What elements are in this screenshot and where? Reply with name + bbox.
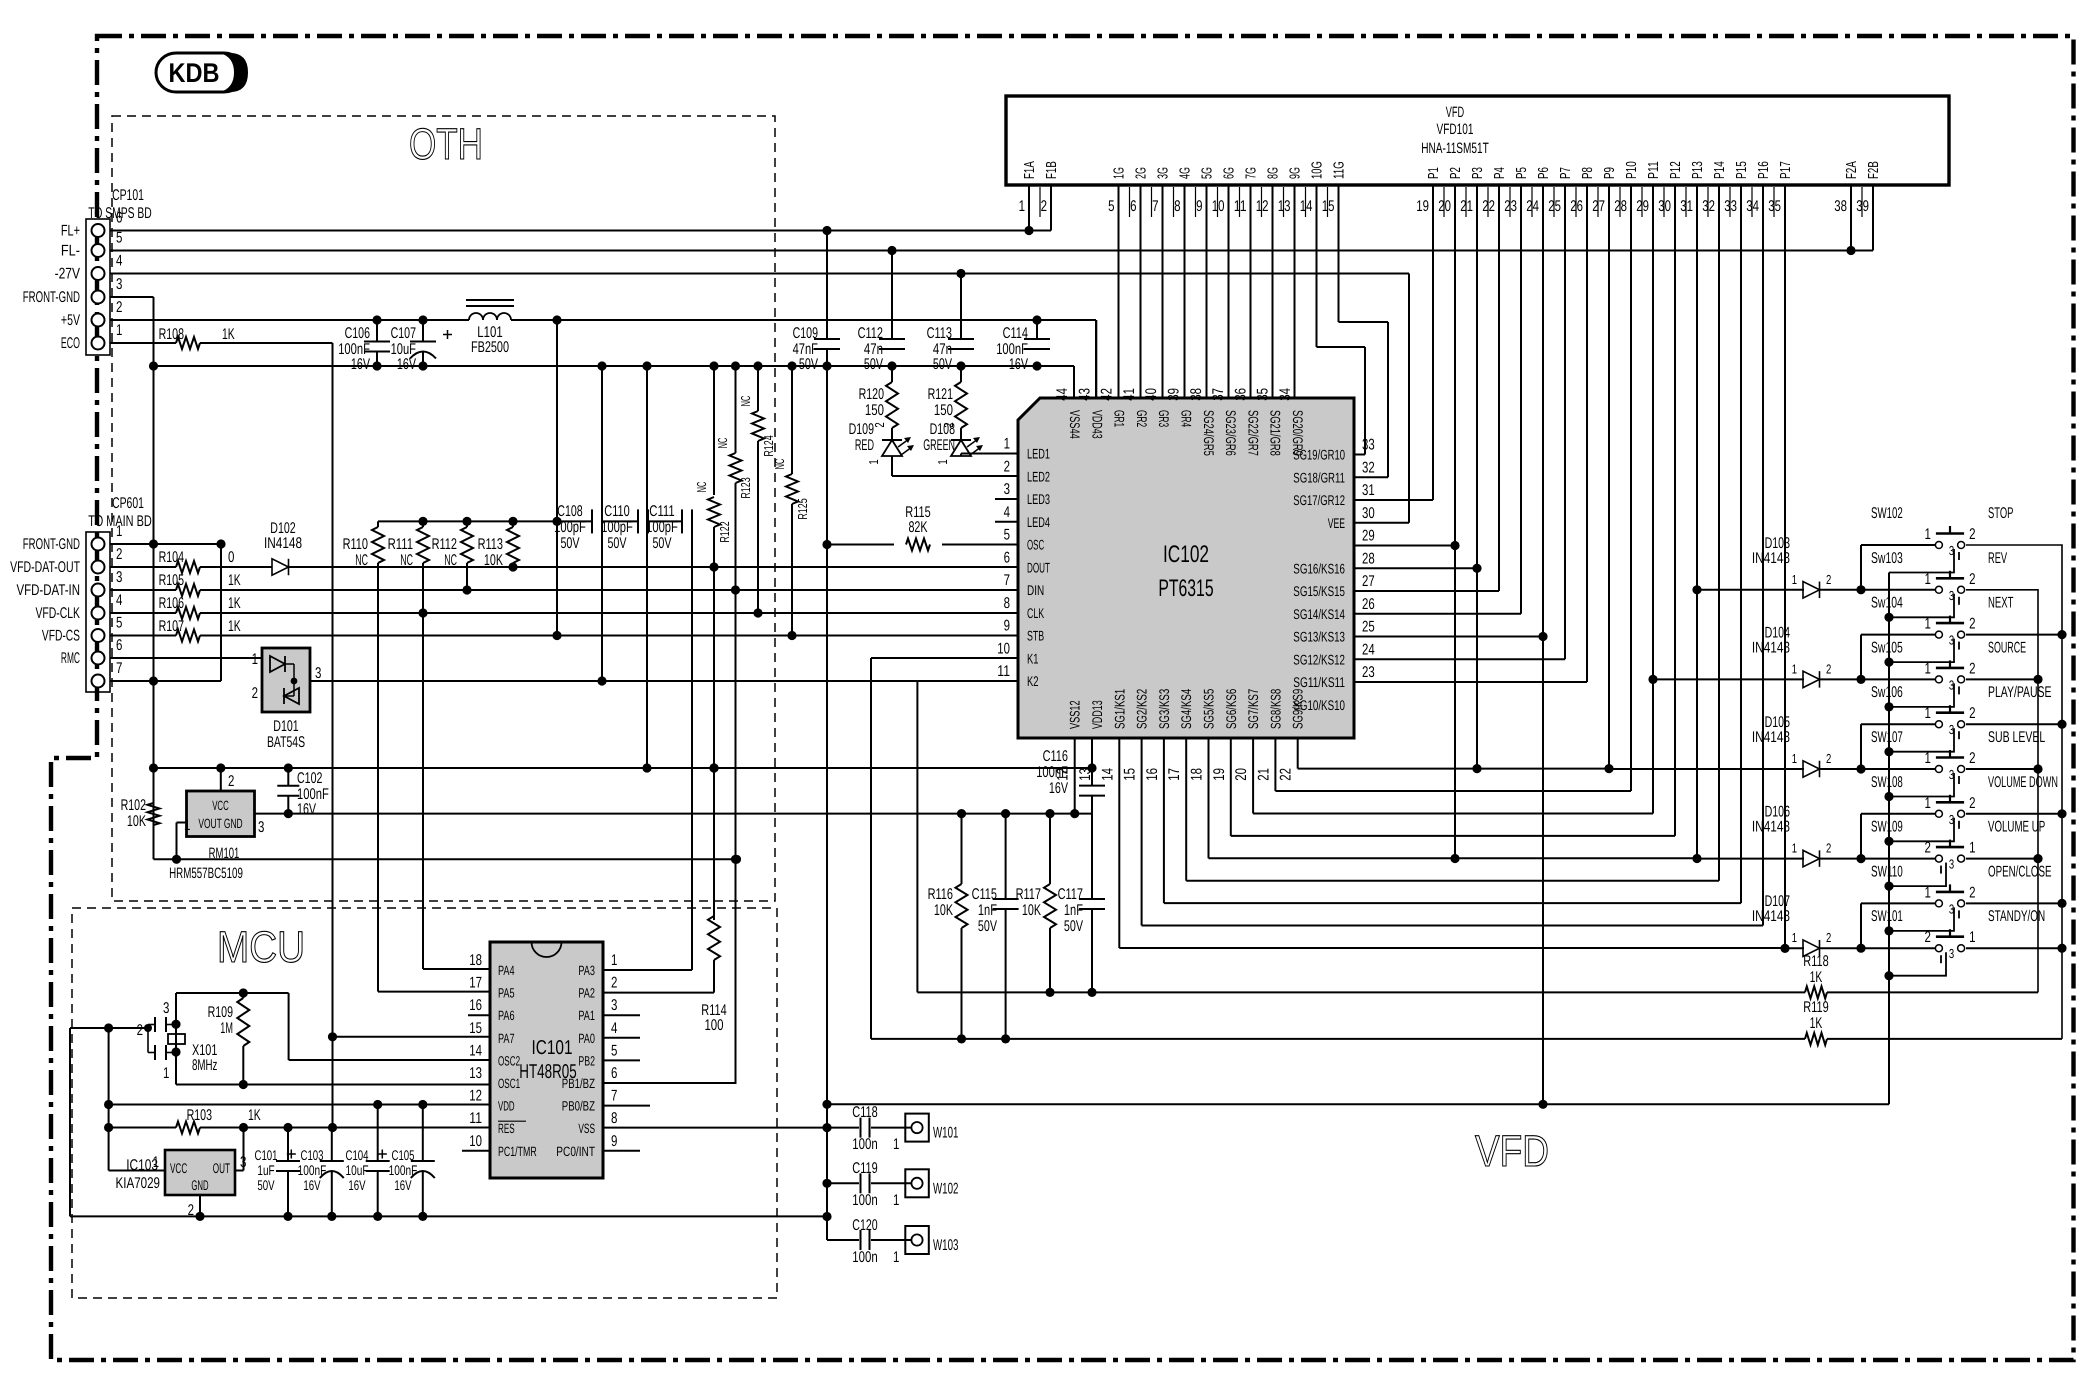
svg-text:1nF: 1nF	[978, 902, 997, 919]
resistor R123 NC	[715, 366, 753, 1083]
MCU region label	[217, 923, 305, 972]
svg-text:RED: RED	[855, 437, 874, 454]
switch Sw103 REV	[1871, 550, 2007, 618]
MCU region dashed box	[72, 908, 777, 1298]
capacitor C106 100nF 16V	[338, 320, 390, 373]
svg-text:LED4: LED4	[1027, 514, 1050, 530]
svg-text:100nF: 100nF	[1036, 764, 1068, 781]
svg-text:C119: C119	[852, 1160, 877, 1177]
svg-text:25: 25	[1548, 198, 1561, 215]
diode D106 IN4148	[1697, 804, 1935, 867]
svg-text:NC: NC	[738, 396, 753, 407]
svg-text:1: 1	[893, 1192, 899, 1209]
svg-text:1: 1	[1925, 660, 1931, 677]
svg-text:VFD: VFD	[1475, 1127, 1549, 1176]
svg-text:CP601: CP601	[112, 495, 144, 512]
svg-text:41: 41	[1121, 388, 1138, 401]
svg-text:KIA7029: KIA7029	[116, 1175, 161, 1192]
svg-text:SW109: SW109	[1871, 819, 1903, 836]
crystal X101 8MHz	[137, 1000, 218, 1082]
svg-text:28: 28	[1362, 550, 1375, 567]
svg-text:7: 7	[1004, 572, 1010, 589]
svg-text:100n: 100n	[852, 1136, 877, 1153]
svg-text:6: 6	[1130, 198, 1136, 215]
svg-text:50V: 50V	[257, 1177, 275, 1193]
svg-text:IC101: IC101	[532, 1037, 573, 1059]
svg-text:VSS12: VSS12	[1067, 700, 1083, 729]
svg-text:P12: P12	[1668, 161, 1684, 179]
svg-text:39: 39	[1856, 198, 1869, 215]
wire 11G jog to pin32	[1339, 185, 1389, 477]
svg-text:SG20/GR9: SG20/GR9	[1290, 410, 1306, 456]
svg-text:W102: W102	[933, 1180, 958, 1197]
svg-text:STOP: STOP	[1988, 505, 2013, 522]
wire crystal bottom loop	[176, 1052, 490, 1089]
wire switch column B (to R119)	[1966, 545, 2067, 1039]
svg-text:2G: 2G	[1134, 167, 1150, 179]
svg-text:1uF: 1uF	[257, 1162, 274, 1178]
svg-text:1: 1	[1925, 884, 1931, 901]
svg-text:IN4148: IN4148	[1752, 639, 1790, 656]
resistor R122 NC / R114 column	[694, 366, 732, 920]
svg-text:R109: R109	[208, 1004, 233, 1021]
svg-text:2: 2	[1969, 571, 1975, 588]
svg-text:W103: W103	[933, 1237, 958, 1254]
svg-text:SW107: SW107	[1871, 729, 1903, 746]
svg-text:SG22/GR7: SG22/GR7	[1245, 410, 1261, 456]
svg-text:C106: C106	[345, 325, 370, 342]
resistor R109 1M	[208, 993, 250, 1085]
regulator IC103 KIA7029	[116, 1150, 247, 1219]
svg-text:K2: K2	[1027, 673, 1039, 689]
svg-text:GR3: GR3	[1156, 410, 1172, 427]
svg-text:OSC2: OSC2	[498, 1053, 520, 1068]
svg-text:P13: P13	[1690, 161, 1706, 179]
svg-text:OSC1: OSC1	[498, 1076, 520, 1091]
svg-text:IN4148: IN4148	[1752, 550, 1790, 567]
svg-text:13: 13	[1278, 198, 1291, 215]
svg-text:7G: 7G	[1244, 167, 1260, 179]
svg-text:0: 0	[228, 549, 235, 566]
resistor R124 NC	[738, 366, 776, 618]
svg-text:SG17/GR12: SG17/GR12	[1293, 492, 1345, 508]
svg-text:1: 1	[1019, 198, 1025, 215]
svg-text:2: 2	[1925, 929, 1931, 946]
wires P9-P17 to SG9/KS9..SG1/KS1 bottom web	[1119, 185, 1789, 953]
wire IC103 GND stub	[195, 1195, 204, 1221]
svg-text:C117: C117	[1058, 886, 1083, 903]
svg-text:PA7: PA7	[498, 1031, 515, 1046]
svg-text:SUB LEVEL: SUB LEVEL	[1988, 729, 2045, 746]
svg-text:16V: 16V	[351, 356, 371, 373]
capacitor C111 100pF 50V	[646, 503, 692, 552]
svg-text:NC: NC	[694, 482, 709, 493]
svg-text:R122: R122	[717, 521, 732, 542]
svg-text:SW101: SW101	[1871, 908, 1903, 925]
svg-text:P5: P5	[1514, 167, 1530, 179]
svg-text:37: 37	[1210, 388, 1227, 401]
inductor L101 FB2500	[466, 300, 514, 356]
wire RM101 pin1	[172, 823, 187, 864]
svg-text:2: 2	[1969, 616, 1975, 633]
svg-text:100nF: 100nF	[389, 1162, 418, 1178]
svg-text:1: 1	[163, 1065, 169, 1082]
svg-text:R108: R108	[159, 326, 184, 343]
svg-text:16V: 16V	[303, 1177, 321, 1193]
svg-text:17: 17	[1166, 768, 1183, 781]
svg-text:2: 2	[252, 685, 258, 702]
svg-text:1: 1	[1792, 841, 1797, 856]
svg-text:5: 5	[116, 615, 122, 632]
svg-text:P8: P8	[1580, 167, 1596, 179]
wire IC101 pin10 stub	[462, 1150, 490, 1152]
wire P1 to SG17/GR12	[1354, 185, 1433, 500]
wire RM101 pin3 VOUT rail	[255, 809, 1092, 818]
svg-text:D109: D109	[849, 421, 874, 438]
VFD region label	[1475, 1127, 1549, 1176]
svg-text:PLAY/PAUSE: PLAY/PAUSE	[1988, 684, 2052, 701]
svg-text:SOURCE: SOURCE	[1988, 639, 2026, 656]
svg-text:R102: R102	[121, 797, 146, 814]
capacitor C118 100n + W101	[827, 1104, 958, 1153]
svg-text:PC1/TMR: PC1/TMR	[498, 1144, 537, 1159]
svg-text:R105: R105	[159, 572, 184, 589]
svg-text:16: 16	[469, 997, 482, 1014]
svg-text:GR2: GR2	[1134, 410, 1150, 427]
svg-text:NEXT: NEXT	[1988, 595, 2014, 612]
svg-text:Sw103: Sw103	[1871, 550, 1903, 567]
svg-text:Sw105: Sw105	[1871, 639, 1903, 656]
svg-text:23: 23	[1362, 664, 1375, 681]
svg-text:150: 150	[865, 402, 884, 419]
svg-text:VDD43: VDD43	[1089, 410, 1105, 439]
svg-text:C108: C108	[557, 503, 582, 520]
svg-text:9: 9	[1004, 618, 1010, 635]
svg-text:27: 27	[1592, 198, 1605, 215]
switch Sw104 NEXT	[1871, 595, 2014, 663]
svg-text:VFD: VFD	[1446, 104, 1465, 121]
resistor R108 1K	[110, 326, 235, 349]
resistor R115 82K on OSC line	[822, 504, 1018, 551]
svg-text:7: 7	[116, 660, 122, 677]
svg-text:TO MAIN BD: TO MAIN BD	[88, 513, 152, 530]
resistor R104 0 + wire VFD-DAT-OUT	[110, 549, 272, 573]
svg-text:19: 19	[1211, 768, 1228, 781]
svg-text:PA6: PA6	[498, 1008, 515, 1023]
svg-text:26: 26	[1362, 596, 1375, 613]
svg-text:100: 100	[704, 1017, 723, 1034]
svg-text:GR1: GR1	[1112, 410, 1128, 427]
svg-text:1: 1	[935, 459, 950, 464]
svg-text:100n: 100n	[852, 1249, 877, 1266]
svg-text:3: 3	[1949, 857, 1954, 872]
svg-text:4G: 4G	[1178, 167, 1194, 179]
svg-text:VDD13: VDD13	[1089, 700, 1105, 729]
svg-text:C107: C107	[391, 325, 416, 342]
resistor R116 10K	[928, 814, 968, 1044]
svg-text:VCC: VCC	[170, 1160, 187, 1176]
svg-text:11: 11	[469, 1110, 482, 1127]
svg-text:IN4148: IN4148	[1752, 819, 1790, 836]
svg-text:50V: 50V	[978, 918, 998, 935]
resistor R103 1K + RES row	[109, 1107, 490, 1134]
svg-text:31: 31	[1362, 482, 1375, 499]
svg-text:3: 3	[315, 665, 321, 682]
svg-text:100pF: 100pF	[646, 519, 678, 536]
diode D107 IN4148	[1752, 893, 1935, 956]
wire VSS row to C118	[603, 1127, 827, 1129]
wire 10G jog to pin33	[1317, 185, 1366, 455]
resistor R118 1K	[1803, 953, 2038, 998]
svg-text:30: 30	[1658, 198, 1671, 215]
svg-text:10: 10	[997, 640, 1010, 657]
capacitor C110 100pF 50V	[601, 503, 648, 552]
svg-text:STB: STB	[1027, 628, 1044, 644]
svg-text:VCC: VCC	[212, 798, 229, 813]
svg-text:PB0/BZ: PB0/BZ	[562, 1099, 595, 1114]
capacitor C104 10uF 16V	[346, 1105, 390, 1217]
svg-text:R125: R125	[795, 498, 810, 519]
svg-text:14: 14	[1300, 198, 1313, 215]
svg-text:PA2: PA2	[578, 986, 595, 1001]
svg-text:SW108: SW108	[1871, 774, 1903, 791]
svg-text:C101: C101	[255, 1147, 278, 1163]
svg-text:PA4: PA4	[498, 963, 515, 978]
svg-text:2: 2	[1969, 660, 1975, 677]
svg-text:STANDY/ON: STANDY/ON	[1988, 908, 2045, 925]
svg-text:16V: 16V	[1049, 780, 1069, 797]
svg-text:SG13/KS13: SG13/KS13	[1293, 629, 1345, 645]
wire PA6 stub	[468, 1014, 490, 1016]
svg-text:1K: 1K	[248, 1107, 261, 1124]
svg-text:1: 1	[1969, 840, 1975, 857]
switch SW107 SUB LEVEL	[1871, 729, 2045, 797]
svg-text:R103: R103	[187, 1107, 212, 1124]
svg-text:C103: C103	[301, 1147, 324, 1163]
svg-text:44: 44	[1054, 388, 1071, 401]
svg-text:P14: P14	[1712, 161, 1728, 179]
capacitor C103 100nF 16V	[287, 1128, 344, 1217]
svg-text:3: 3	[258, 819, 264, 836]
svg-text:C116: C116	[1043, 748, 1068, 765]
svg-text:IN4148: IN4148	[1752, 908, 1790, 925]
wire RM101 pin2 stub	[220, 768, 222, 791]
svg-text:SG24/GR5: SG24/GR5	[1201, 410, 1217, 456]
svg-text:P3: P3	[1470, 167, 1486, 179]
svg-text:REV: REV	[1988, 550, 2007, 567]
svg-text:R124: R124	[761, 435, 776, 456]
svg-text:R111: R111	[388, 536, 413, 553]
resistor R112 NC	[432, 521, 473, 594]
svg-text:32: 32	[1362, 459, 1375, 476]
diode D103 IN4148	[1697, 535, 1935, 598]
svg-text:BAT54S: BAT54S	[267, 734, 305, 751]
wire IC101 pin9 stub	[603, 1150, 640, 1152]
wire switch column A (to R118)	[1966, 590, 2043, 993]
diode D104 IN4148	[1653, 624, 1935, 687]
svg-text:42: 42	[1099, 388, 1116, 401]
svg-text:1nF: 1nF	[1064, 902, 1083, 919]
svg-text:7: 7	[1152, 198, 1158, 215]
svg-text:R112: R112	[432, 536, 457, 553]
svg-text:2: 2	[1826, 751, 1831, 766]
svg-text:LED1: LED1	[1027, 446, 1050, 462]
svg-text:PB1/BZ: PB1/BZ	[562, 1076, 595, 1091]
capacitor C114 100nF 16V	[996, 320, 1050, 373]
resistor R107 1K + wire VFD-CS	[110, 618, 1018, 642]
wire -27V net to VEE	[110, 269, 1409, 523]
svg-text:16V: 16V	[397, 356, 417, 373]
svg-text:MCU: MCU	[217, 923, 305, 972]
wire ECO net	[200, 343, 337, 1132]
switch SW102 STOP	[1871, 505, 2013, 573]
capacitor C102 100nF 16V	[277, 768, 329, 818]
svg-text:1G: 1G	[1112, 167, 1128, 179]
svg-text:SW102: SW102	[1871, 505, 1903, 522]
wires even switch pin1 drops	[1856, 545, 1935, 953]
svg-text:D101: D101	[273, 718, 298, 735]
svg-text:50V: 50V	[799, 356, 819, 373]
svg-text:IN4148: IN4148	[1752, 729, 1790, 746]
resistor R119 1K	[1803, 999, 2062, 1045]
svg-text:2: 2	[1826, 661, 1831, 676]
svg-text:SG9/KS9: SG9/KS9	[1290, 689, 1306, 729]
wires P2-P8 to SG16..SG10 rows	[1354, 185, 1587, 1109]
svg-text:13: 13	[469, 1065, 482, 1082]
svg-text:2: 2	[228, 773, 234, 790]
svg-text:DIN: DIN	[1027, 582, 1044, 598]
svg-text:2: 2	[1004, 458, 1010, 475]
svg-text:50V: 50V	[652, 535, 672, 552]
svg-text:SG23/GR6: SG23/GR6	[1223, 410, 1239, 456]
wire IC101 pin7 stub	[603, 1105, 650, 1107]
svg-text:R104: R104	[159, 549, 185, 566]
resistor R111 NC	[388, 521, 429, 969]
IC102 stub pins LED3 LED4	[995, 499, 1018, 522]
svg-text:1: 1	[893, 1249, 899, 1266]
svg-text:R123: R123	[738, 477, 753, 498]
svg-text:HRM557BC5109: HRM557BC5109	[169, 865, 243, 882]
svg-text:SG15/KS15: SG15/KS15	[1293, 583, 1345, 599]
wire PB1 row	[603, 1082, 737, 1084]
resistor R102 10K	[121, 797, 160, 830]
svg-text:PA1: PA1	[578, 1008, 595, 1023]
svg-text:R106: R106	[159, 595, 184, 612]
svg-text:C109: C109	[793, 325, 818, 342]
svg-text:28: 28	[1614, 198, 1627, 215]
svg-text:20: 20	[1233, 768, 1250, 781]
svg-text:38: 38	[1188, 388, 1205, 401]
regulator RM101 HRM557BC5109	[169, 773, 264, 882]
wire K1 row	[871, 1038, 1805, 1040]
svg-text:1: 1	[184, 817, 190, 834]
wire net 827 spine	[822, 226, 831, 1221]
connector CP101 TO SMPS BD	[23, 187, 152, 355]
svg-text:1K: 1K	[1810, 969, 1823, 986]
svg-text:IC102: IC102	[1163, 541, 1209, 568]
svg-text:9: 9	[1196, 198, 1202, 215]
capacitor C115 1nF 50V	[972, 814, 1019, 1044]
IC102 bottom pin labels	[1055, 689, 1306, 781]
svg-text:1: 1	[1792, 661, 1797, 676]
capacitor C108 100pF 50V	[554, 503, 602, 552]
svg-text:PC0/INT: PC0/INT	[556, 1144, 595, 1159]
svg-text:82K: 82K	[908, 519, 928, 536]
svg-text:SG21/GR8: SG21/GR8	[1268, 410, 1284, 456]
svg-text:F2B: F2B	[1866, 161, 1882, 179]
svg-text:43: 43	[1076, 388, 1093, 401]
svg-text:25: 25	[1362, 619, 1375, 636]
wires 1G-9G to GR pins	[1119, 185, 1295, 398]
capacitor C112 47n 50V	[858, 246, 905, 373]
svg-text:C102: C102	[297, 770, 322, 787]
svg-text:100n: 100n	[852, 1192, 877, 1209]
wire MCU gnd rail	[70, 1028, 827, 1221]
svg-text:3G: 3G	[1156, 167, 1172, 179]
svg-text:1: 1	[1004, 436, 1010, 453]
svg-text:8G: 8G	[1266, 167, 1282, 179]
svg-text:P2: P2	[1448, 167, 1464, 179]
svg-text:DOUT: DOUT	[1027, 559, 1050, 575]
svg-text:RMC: RMC	[61, 650, 80, 667]
svg-text:26: 26	[1570, 198, 1583, 215]
svg-text:39: 39	[1166, 388, 1183, 401]
resistor R117 10K	[1016, 814, 1056, 997]
svg-text:1K: 1K	[228, 595, 241, 612]
wire VDD43 stub	[1095, 320, 1097, 398]
svg-text:C110: C110	[604, 503, 630, 520]
svg-text:1K: 1K	[222, 326, 235, 343]
svg-text:8MHz: 8MHz	[192, 1057, 217, 1074]
wire crystal top loop	[176, 988, 490, 1060]
svg-text:C120: C120	[852, 1217, 878, 1234]
svg-text:C111: C111	[649, 503, 674, 520]
svg-text:P15: P15	[1734, 161, 1750, 179]
svg-text:C115: C115	[972, 886, 997, 903]
IC102 top pin labels	[1054, 388, 1306, 456]
svg-text:2: 2	[137, 1022, 143, 1039]
resistor R114 100	[603, 916, 727, 1034]
wire PA5 row	[378, 991, 490, 993]
svg-text:11: 11	[1234, 198, 1247, 215]
svg-text:16V: 16V	[1009, 356, 1029, 373]
wire +5V pullup feed	[552, 320, 561, 640]
svg-text:SG18/GR11: SG18/GR11	[1293, 469, 1345, 485]
wire IC101 pin3 stub	[603, 1014, 640, 1016]
capacitor C119 100n + W102	[827, 1160, 958, 1209]
svg-text:4: 4	[116, 592, 123, 609]
svg-text:22: 22	[1482, 198, 1495, 215]
svg-text:GND: GND	[191, 1177, 208, 1193]
svg-text:VSS: VSS	[578, 1121, 595, 1136]
svg-text:10: 10	[1212, 198, 1225, 215]
svg-text:FL-: FL-	[61, 243, 80, 260]
svg-text:RES: RES	[498, 1121, 515, 1136]
svg-text:R120: R120	[859, 386, 885, 403]
resistor R120 150	[859, 366, 898, 428]
wire switch common chain	[1884, 573, 1893, 1105]
svg-text:4: 4	[611, 1020, 618, 1037]
svg-text:50V: 50V	[1064, 918, 1084, 935]
svg-text:Sw104: Sw104	[1871, 595, 1903, 612]
svg-text:29: 29	[1636, 198, 1649, 215]
svg-text:33: 33	[1362, 437, 1375, 454]
KDB logo	[156, 53, 248, 92]
svg-text:SG11/KS11: SG11/KS11	[1293, 674, 1345, 690]
svg-text:SG5/KS5: SG5/KS5	[1201, 689, 1217, 729]
LED D109 RED	[849, 421, 1018, 476]
OTH region dashed box	[112, 116, 775, 901]
